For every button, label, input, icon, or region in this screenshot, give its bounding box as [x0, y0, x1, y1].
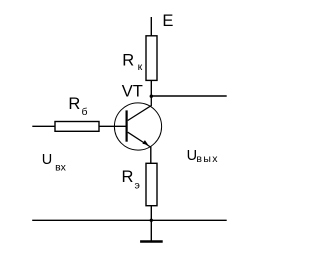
svg-text:R: R	[122, 52, 134, 70]
node: ground rail junction dot	[150, 219, 153, 222]
wire: Rb to base	[99, 125, 127, 127]
label U_vyx (output voltage)	[187, 148, 219, 165]
transistor VT collector lead (diagonal + vertical)	[128, 96, 152, 121]
label U_vx (input voltage)	[42, 152, 67, 174]
label Rk	[122, 52, 142, 74]
node: collector junction dot	[150, 95, 153, 98]
svg-text:E: E	[162, 12, 173, 30]
transistor VT emitter arrowhead	[142, 140, 148, 145]
transistor VT circle	[114, 103, 161, 150]
wire: emitter to Re	[150, 147, 152, 164]
svg-text:VT: VT	[122, 82, 143, 100]
label Re	[122, 168, 140, 191]
svg-text:э: э	[135, 180, 140, 192]
svg-text:б: б	[82, 106, 88, 118]
svg-text:U: U	[42, 152, 52, 168]
svg-text:R: R	[122, 168, 134, 186]
resistor Re body	[146, 163, 157, 205]
wire: Rk bottom to collector node	[150, 80, 152, 96]
resistor Rb body	[55, 122, 99, 132]
svg-text:R: R	[68, 95, 80, 113]
ground stem	[150, 220, 152, 240]
label Rb	[68, 95, 87, 118]
wire: E supply lead	[150, 17, 152, 36]
wire: collector output (top right horizontal)	[151, 95, 226, 97]
wire: input lead (left of Rb)	[32, 125, 55, 127]
resistor Rk body	[146, 36, 157, 81]
wire: Re bottom to ground rail	[150, 206, 152, 221]
transistor VT emitter lead (diagonal)	[128, 132, 151, 147]
ground bar	[140, 240, 163, 242]
wire: bottom rail (horizontal)	[32, 219, 227, 221]
transistor VT base bar	[125, 110, 127, 141]
svg-text:к: к	[138, 61, 143, 73]
svg-text:вых: вых	[196, 153, 218, 165]
svg-text:вх: вх	[55, 162, 67, 174]
